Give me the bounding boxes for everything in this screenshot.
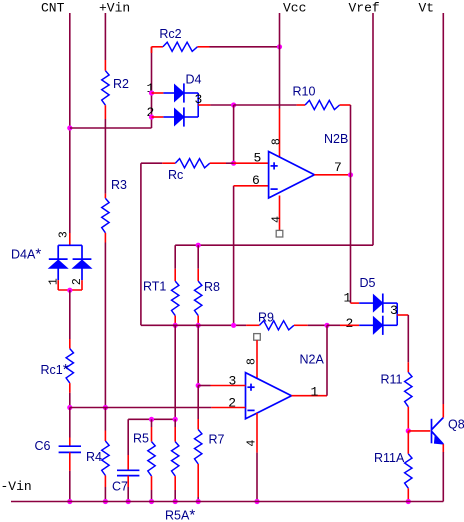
op-amp N2B body bbox=[269, 152, 315, 199]
resistor R7 top lead bbox=[197, 419, 199, 430]
diode D4A* right diode bbox=[73, 258, 92, 260]
resistor RT1 bottom lead bbox=[174, 316, 176, 326]
op-amp N2A pin 1 lead bbox=[292, 395, 328, 397]
op-amp N2B plus input marker bbox=[271, 165, 278, 167]
resistor R3 top lead bbox=[104, 194, 106, 199]
wire Rc2 corner red stub bbox=[151, 47, 153, 53]
wire Vref line down to RT1 bbox=[174, 245, 176, 269]
resistor R4 bbox=[102, 441, 109, 476]
wire pin2 net horizontal bbox=[70, 407, 212, 409]
junction R8 top on Vref line bbox=[196, 243, 201, 248]
wire Vref horizontal to RT1 bbox=[175, 244, 373, 246]
svg-text:Vcc: Vcc bbox=[283, 1, 306, 16]
resistor R5 bottom lead bbox=[151, 476, 153, 490]
wire R2 to R3 bbox=[104, 119, 106, 194]
resistor R8 bottom lead bbox=[197, 316, 199, 326]
diode D5 lower anode line bbox=[359, 324, 373, 326]
op-amp N2A pin 2 lead bbox=[211, 407, 245, 409]
svg-text:RT1: RT1 bbox=[143, 280, 166, 294]
wire Vref rail vertical bbox=[372, 13, 374, 245]
wire Vref line down to R8 bbox=[197, 245, 199, 269]
svg-text:D5: D5 bbox=[360, 276, 376, 290]
diode D4 pin1 lead bbox=[152, 92, 164, 94]
svg-text:3: 3 bbox=[58, 231, 71, 238]
op-amp N2A pin 3 lead bbox=[211, 385, 246, 387]
wire R5A* to -Vin rail bbox=[174, 490, 176, 502]
wire R5A* top stub bbox=[174, 419, 176, 427]
svg-text:R9: R9 bbox=[258, 311, 274, 325]
svg-text:Rc: Rc bbox=[168, 168, 183, 182]
svg-text:D4: D4 bbox=[186, 73, 202, 87]
resistor R3 bottom lead bbox=[104, 233, 106, 243]
wire R9 to N2A pin1 junction bbox=[308, 324, 327, 326]
op-amp N2A minus input marker bbox=[247, 409, 254, 411]
resistor R5A* bbox=[172, 442, 179, 477]
svg-text:C7: C7 bbox=[112, 480, 128, 494]
op-amp N2B pin 8 lead bbox=[279, 109, 281, 158]
svg-text:R2: R2 bbox=[113, 77, 129, 91]
junction RT1 bottom bbox=[173, 323, 178, 328]
wire pin3 junction down to R7 bbox=[197, 386, 199, 420]
resistor R11 top lead bbox=[407, 362, 409, 372]
resistor RT1 bbox=[172, 281, 179, 316]
junction C7 on -Vin rail bbox=[126, 499, 131, 504]
junction C6 on -Vin rail bbox=[67, 499, 72, 504]
resistor R7 bbox=[195, 430, 202, 465]
wire junction to R4 bbox=[104, 408, 106, 431]
wire Vt rail vertical bbox=[442, 13, 444, 404]
diode D4A* bottom join bbox=[58, 289, 82, 291]
capacitor C7 top lead bbox=[127, 455, 129, 470]
resistor R10 bbox=[305, 100, 340, 109]
diode D5 upper anode line bbox=[359, 302, 373, 304]
svg-text:R8: R8 bbox=[204, 280, 220, 294]
resistor R5A* top lead bbox=[174, 427, 176, 442]
wire Rc corner horizontal bbox=[141, 162, 162, 164]
diode D5 cathode join vertical bbox=[396, 303, 398, 325]
no-connect square N2A pin 8 bbox=[254, 334, 261, 341]
resistor R2 bbox=[102, 71, 109, 105]
resistor R8 top lead bbox=[197, 269, 199, 281]
junction R3/R4/pin2 net bbox=[103, 405, 108, 410]
svg-text:Vref: Vref bbox=[349, 1, 380, 16]
wire Rc to pin5 junction bbox=[226, 162, 234, 164]
resistor R11A bbox=[405, 454, 412, 489]
capacitor C6 bottom lead bbox=[69, 452, 71, 471]
diode D4 pin2 lead bbox=[152, 116, 164, 118]
resistor Rc2 bbox=[163, 42, 198, 51]
wire CNT rail vertical bbox=[69, 13, 71, 233]
op-amp N2A pin 8 lead bbox=[256, 340, 258, 379]
resistor R5 bbox=[148, 442, 155, 477]
wire R4 to -Vin rail bbox=[104, 487, 106, 502]
resistor Rc2 left lead bbox=[152, 46, 163, 48]
diode D5 pin2 lead bbox=[340, 324, 359, 326]
svg-text:-Vin: -Vin bbox=[1, 479, 32, 494]
resistor Rc2 right lead bbox=[197, 46, 209, 48]
junction D4 pin 2 bbox=[149, 114, 154, 119]
junction pin3 / R7 bbox=[196, 383, 201, 388]
resistor Rc right lead bbox=[210, 162, 226, 164]
junction on CNT rail bbox=[67, 125, 72, 130]
wire pin6 corner vertical bbox=[233, 186, 235, 325]
diode D5 lower cathode line bbox=[383, 324, 397, 326]
junction D4 pin3 / R10 / pin5 net bbox=[231, 102, 236, 107]
capacitor C7 bbox=[117, 469, 139, 471]
wire R9 junction to D5 pin2 bbox=[327, 324, 340, 326]
junction R5 top bbox=[149, 417, 154, 422]
diode D4 upper anode line bbox=[163, 92, 174, 94]
resistor RT1 top lead bbox=[174, 269, 176, 281]
junction R9 / N2A pin1 / D5 pin2 bbox=[324, 323, 329, 328]
svg-text:R4: R4 bbox=[86, 450, 102, 464]
resistor Rc left lead bbox=[162, 162, 175, 164]
wire Rc1* to pin2 net bbox=[69, 393, 71, 408]
junction N2A pin4 on -Vin rail bbox=[254, 499, 259, 504]
svg-text:Rc1*: Rc1* bbox=[41, 361, 69, 378]
wire R5 to -Vin rail bbox=[151, 490, 153, 502]
junction R5A* top bbox=[173, 417, 178, 422]
wire RT1 bottom down to R5A* bbox=[174, 325, 176, 419]
capacitor C6 bbox=[59, 445, 81, 447]
wire R10 corner down to D5 pin1 bbox=[350, 105, 352, 303]
resistor R2 bottom lead bbox=[104, 105, 106, 119]
resistor R9 right lead bbox=[294, 324, 308, 326]
resistor Rc1* bbox=[66, 349, 73, 384]
svg-text:1: 1 bbox=[311, 385, 319, 400]
svg-text:N2B: N2B bbox=[324, 132, 348, 146]
resistor R9 bbox=[259, 321, 294, 330]
resistor R5 top lead bbox=[151, 427, 153, 442]
diode D5 upper diode bbox=[373, 295, 382, 312]
svg-text:3: 3 bbox=[390, 303, 398, 318]
wire Vcc rail bbox=[279, 13, 281, 109]
resistor R4 top lead bbox=[104, 431, 106, 442]
svg-text:R10: R10 bbox=[293, 85, 316, 99]
svg-text:CNT: CNT bbox=[41, 1, 65, 16]
wire R8 net down to pin3 junction bbox=[197, 325, 199, 385]
junction R5A* on -Vin rail bbox=[173, 499, 178, 504]
wire D4 ladder vertical bbox=[151, 47, 153, 128]
transistor Q8 base bar bbox=[431, 419, 433, 444]
wire D5 pin3 down to R11 bbox=[407, 315, 409, 362]
wire R11A to -Vin rail bbox=[407, 499, 409, 502]
diode D4 lower diode bbox=[175, 109, 184, 126]
resistor R10 left lead bbox=[297, 104, 306, 106]
svg-text:6: 6 bbox=[252, 173, 260, 188]
wire C7 corner down bbox=[127, 419, 129, 455]
op-amp N2B pin 4 lead bbox=[279, 196, 281, 231]
diode D4 lower anode line bbox=[163, 116, 174, 118]
wire R3 to R4 bbox=[104, 243, 106, 408]
svg-text:R11: R11 bbox=[381, 373, 403, 387]
diode D5 lower diode bbox=[373, 317, 382, 334]
svg-text:Q8: Q8 bbox=[448, 418, 464, 432]
wire Rc2 to Vcc rail bbox=[210, 46, 280, 48]
resistor R4 bottom lead bbox=[104, 476, 106, 488]
junction Rc2/Vcc bbox=[277, 44, 282, 49]
transistor Q8 emitter stroke bbox=[432, 432, 444, 445]
svg-text:R5: R5 bbox=[133, 432, 149, 446]
junction R5 on -Vin rail bbox=[149, 499, 154, 504]
transistor Q8 collector stroke bbox=[432, 418, 444, 430]
junction R11A on -Vin rail bbox=[406, 499, 411, 504]
diode D5 pin1 lead bbox=[351, 302, 360, 304]
diode D4 pin3 lead bbox=[198, 104, 210, 106]
svg-text:5: 5 bbox=[254, 151, 262, 166]
junction D4 pin 1 bbox=[149, 90, 154, 95]
diode D5 upper cathode line bbox=[383, 302, 397, 304]
resistor Rc1* top lead bbox=[69, 339, 71, 349]
wire C7 to -Vin rail bbox=[127, 487, 129, 502]
resistor R11A bottom lead bbox=[407, 488, 409, 499]
resistor R11 bbox=[405, 372, 412, 407]
diode D4A* left vertical bbox=[57, 245, 59, 280]
diode D4 upper cathode line bbox=[184, 92, 198, 94]
resistor R8 bbox=[195, 281, 202, 316]
diode D4A* pin3 lead bbox=[69, 233, 71, 245]
resistor R7 bottom lead bbox=[197, 464, 199, 497]
resistor R9 left lead bbox=[246, 324, 259, 326]
diode D4A* top rail bbox=[58, 244, 82, 246]
wire N2A pin4 to -Vin rail bbox=[256, 453, 258, 502]
svg-text:3: 3 bbox=[229, 374, 237, 389]
resistor R10 right lead bbox=[340, 104, 351, 106]
svg-text:R3: R3 bbox=[111, 178, 127, 192]
wire R7 to -Vin rail bbox=[197, 497, 199, 502]
svg-text:R7: R7 bbox=[209, 433, 225, 447]
diode D4A* pin2 lead bbox=[81, 280, 83, 290]
junction R7 on -Vin rail bbox=[196, 499, 201, 504]
diode D4A* right vertical bbox=[81, 245, 83, 280]
diode D4 lower cathode line bbox=[184, 116, 198, 118]
wire D4 pin3 to junction bbox=[210, 104, 233, 106]
resistor R2 top lead bbox=[104, 60, 106, 71]
wire +Vin rail top bbox=[104, 13, 106, 60]
resistor R11 bottom lead bbox=[407, 407, 409, 431]
svg-text:4: 4 bbox=[271, 216, 284, 223]
diode D4A* left diode bbox=[49, 258, 68, 260]
op-amp N2A plus input marker bbox=[247, 386, 254, 388]
svg-text:2: 2 bbox=[228, 396, 236, 411]
wire D4A* to Rc1* bbox=[69, 290, 71, 339]
wire Q8 emitter to -Vin rail bbox=[442, 452, 444, 502]
wire R5 top stub bbox=[151, 419, 153, 427]
wire Rc corner vertical bbox=[140, 163, 142, 325]
svg-text:N2A: N2A bbox=[300, 353, 325, 367]
op-amp N2B pin 5 lead bbox=[234, 162, 269, 164]
wire R9 line left segment bbox=[141, 324, 246, 326]
capacitor C7 bottom lead bbox=[127, 476, 129, 487]
op-amp N2B pin 7 lead bbox=[314, 174, 350, 176]
wire CNT horizontal to D4 pin2 bbox=[70, 127, 152, 129]
diode D4 upper diode bbox=[175, 85, 184, 102]
transistor Q8 emitter arrow bbox=[434, 436, 444, 445]
svg-text:D4A*: D4A* bbox=[11, 246, 41, 263]
svg-text:8: 8 bbox=[245, 358, 258, 365]
junction pin6 net on R9 line bbox=[231, 323, 236, 328]
capacitor C6 top lead bbox=[69, 438, 71, 447]
resistor Rc1* bottom lead bbox=[69, 383, 71, 393]
diode D5 pin3 lead bbox=[397, 314, 408, 316]
wire junction down to C6 bbox=[69, 408, 71, 438]
svg-text:8: 8 bbox=[271, 138, 284, 145]
svg-text:1: 1 bbox=[344, 291, 352, 306]
op-amp N2B pin 6 lead bbox=[234, 185, 269, 187]
svg-text:C6: C6 bbox=[35, 439, 51, 453]
op-amp N2B minus input marker bbox=[271, 188, 278, 190]
no-connect square N2B pin 4 bbox=[276, 230, 283, 237]
svg-text:7: 7 bbox=[334, 160, 342, 175]
transistor Q8 emitter lead bbox=[442, 444, 444, 452]
svg-text:2: 2 bbox=[346, 316, 354, 331]
wire -Vin rail horizontal bbox=[11, 501, 443, 503]
wire C6 to -Vin rail bbox=[69, 471, 71, 502]
junction D4A* bottom bbox=[67, 288, 72, 293]
svg-text:R11A: R11A bbox=[374, 451, 405, 465]
resistor Rc bbox=[175, 159, 210, 168]
junction pin7 / R10 net bbox=[348, 172, 353, 177]
junction R4 on -Vin rail bbox=[103, 499, 108, 504]
wire pin3 junction to lead bbox=[198, 385, 210, 387]
op-amp N2A body bbox=[246, 373, 292, 419]
transistor Q8 base lead bbox=[408, 430, 430, 432]
junction R8 bottom bbox=[196, 323, 201, 328]
wire junction to R10 bbox=[234, 104, 297, 106]
op-amp N2A pin 4 lead bbox=[256, 413, 258, 453]
wire N2A pin1 up to R9 junction bbox=[326, 325, 328, 395]
transistor Q8 collector lead bbox=[442, 404, 444, 418]
svg-text:Rc2: Rc2 bbox=[159, 27, 181, 41]
diode D4A* pin1 lead bbox=[57, 280, 59, 290]
wire C57 row horizontal bbox=[128, 418, 175, 420]
svg-text:4: 4 bbox=[246, 440, 259, 447]
svg-text:Vt: Vt bbox=[419, 1, 435, 16]
junction Rc / pin5 bbox=[231, 161, 236, 166]
diode D4 cathode join vertical bbox=[197, 93, 199, 117]
wire pin3 junction down to pin5 junction bbox=[233, 105, 235, 163]
svg-text:+Vin: +Vin bbox=[99, 1, 130, 16]
resistor R5A* bottom lead bbox=[174, 476, 176, 490]
junction Rc1*/C6/pin2 net bbox=[67, 405, 72, 410]
resistor R3 bbox=[102, 198, 109, 233]
junction R11 / Q8 base / R11A bbox=[406, 428, 411, 433]
resistor R11A top lead bbox=[407, 431, 409, 454]
svg-text:R5A*: R5A* bbox=[165, 507, 195, 522]
